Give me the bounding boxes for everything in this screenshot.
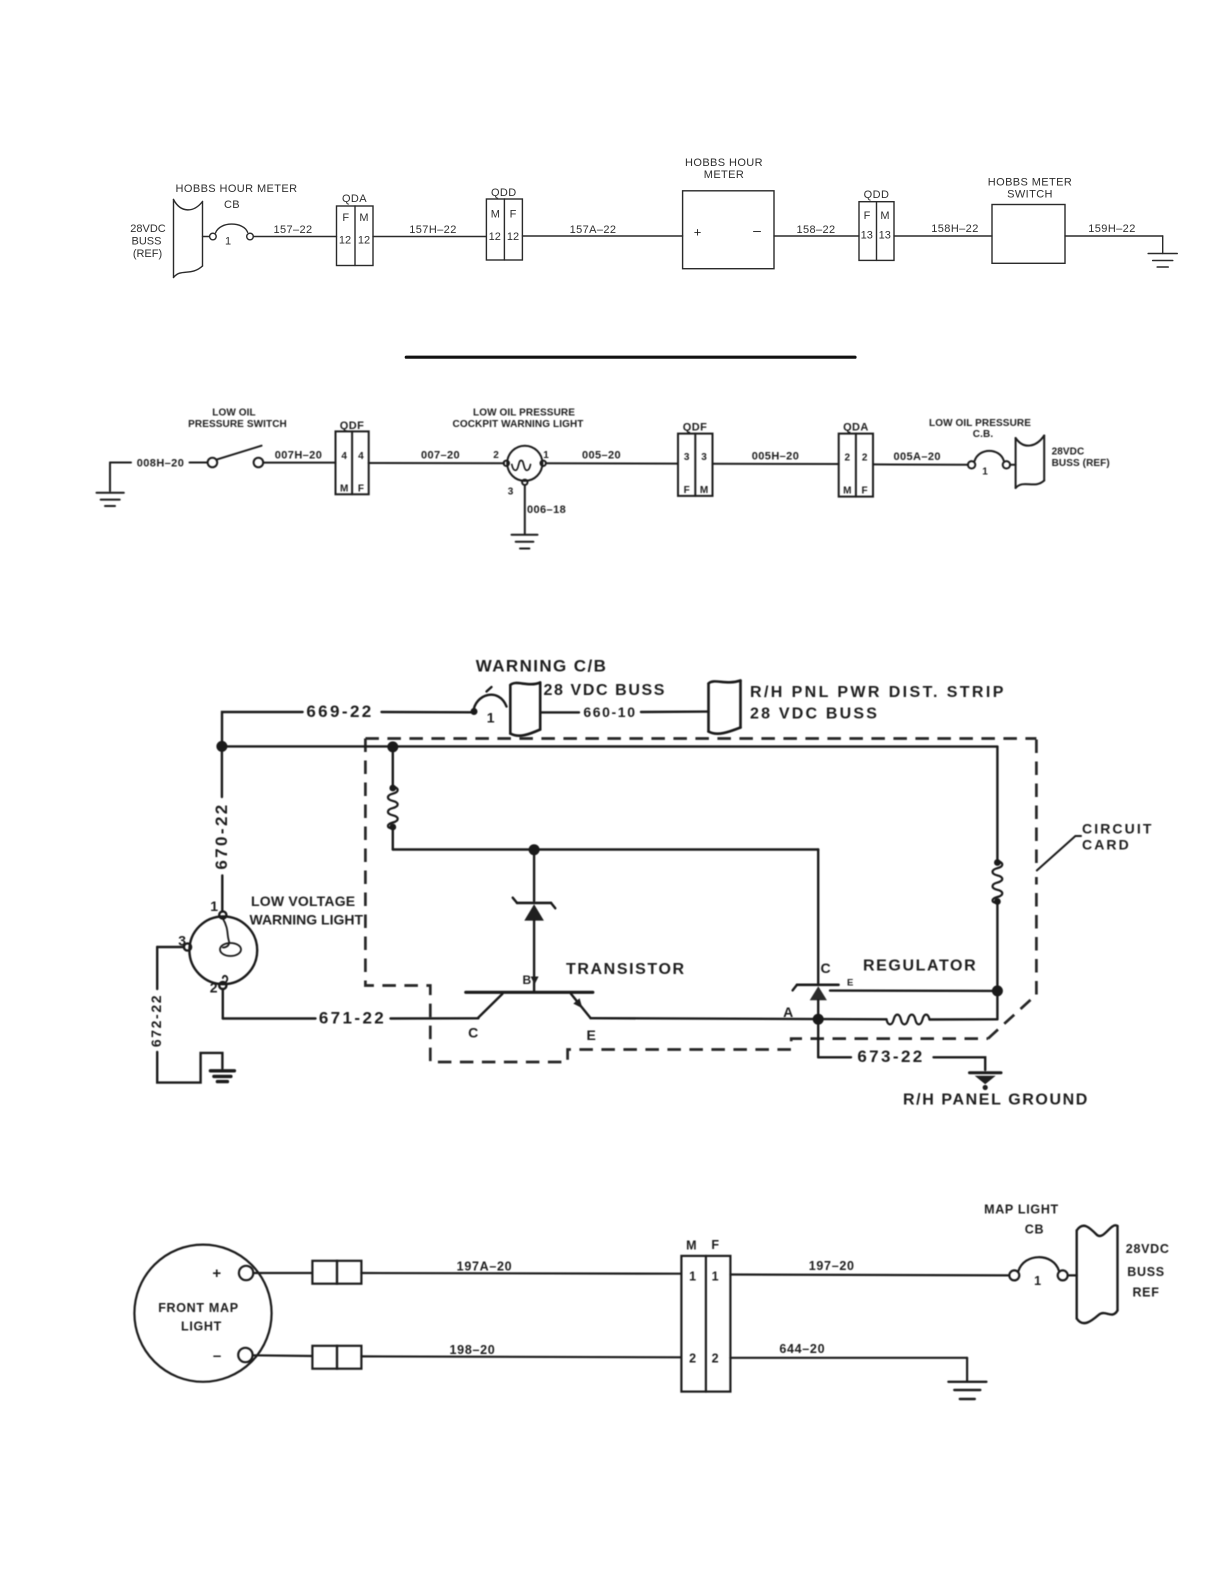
resistor R2 (right, on circuit card)	[993, 747, 1003, 1020]
bus 28VDC BUSS (REF)	[130, 200, 202, 278]
svg-text:BUSS (REF): BUSS (REF)	[1052, 458, 1110, 469]
svg-text:A: A	[783, 1004, 795, 1020]
svg-text:C: C	[468, 1025, 480, 1041]
switch LOW OIL PRESSURE SWITCH	[188, 408, 287, 468]
svg-text:M: M	[491, 209, 500, 221]
svg-text:12: 12	[489, 231, 501, 243]
svg-text:644–20: 644–20	[779, 1342, 825, 1356]
connector QDD pins F/M 13/13	[859, 189, 894, 260]
separator line	[406, 356, 855, 359]
svg-text:QDF: QDF	[340, 420, 364, 432]
zener diode (on transistor base)	[513, 850, 556, 991]
svg-text:WARNING LIGHT: WARNING LIGHT	[250, 912, 364, 928]
svg-text:M: M	[340, 484, 348, 495]
wire emitter to regulator A	[591, 1004, 887, 1024]
wire 671-22	[223, 989, 479, 1028]
SECTION2	[97, 408, 1110, 549]
svg-text:HOBBS HOUR METER: HOBBS HOUR METER	[176, 183, 298, 195]
svg-text:+: +	[212, 1265, 221, 1282]
svg-text:M: M	[843, 485, 851, 496]
svg-text:F: F	[358, 484, 364, 495]
svg-text:1: 1	[982, 467, 988, 478]
svg-text:–: –	[753, 222, 761, 238]
svg-text:2: 2	[493, 450, 499, 461]
connector QDF pins 3/3 F/M	[678, 422, 713, 496]
lamp LOW OIL PRESSURE COCKPIT WARNING LIGHT	[453, 408, 584, 498]
svg-text:670-22: 670-22	[212, 802, 231, 869]
circuit breaker CB 1 (hobbs)	[210, 224, 254, 247]
svg-text:005–20: 005–20	[582, 450, 621, 462]
svg-text:MAP LIGHT: MAP LIGHT	[984, 1203, 1059, 1217]
circuit breaker LOW OIL PRESSURE C.B.	[929, 418, 1031, 478]
svg-text:1: 1	[225, 236, 231, 248]
svg-text:28VDC: 28VDC	[130, 223, 166, 235]
svg-text:CARD: CARD	[1082, 837, 1131, 853]
svg-text:F: F	[711, 1238, 719, 1252]
svg-text:CB: CB	[224, 199, 240, 211]
svg-text:2: 2	[689, 1352, 697, 1366]
svg-text:HOBBS METER: HOBBS METER	[988, 177, 1072, 189]
svg-text:WARNING C/B: WARNING C/B	[476, 657, 608, 676]
svg-text:QDF: QDF	[683, 422, 707, 434]
svg-text:BUSS: BUSS	[132, 236, 162, 248]
splice (197A-20)	[312, 1261, 361, 1284]
wire 660-10	[541, 704, 709, 720]
svg-text:008H–20: 008H–20	[137, 458, 184, 470]
wire 007-20	[369, 449, 504, 463]
wire second rail	[393, 845, 818, 854]
svg-text:671-22: 671-22	[319, 1009, 386, 1028]
svg-text:007H–20: 007H–20	[275, 450, 322, 462]
ground (low oil pressure switch side)	[97, 463, 124, 507]
svg-text:159H–22: 159H–22	[1088, 223, 1135, 235]
svg-text:158H–22: 158H–22	[931, 223, 978, 235]
svg-text:28VDC: 28VDC	[1052, 447, 1085, 458]
wire 005H-20	[713, 451, 839, 465]
svg-text:672-22: 672-22	[148, 994, 164, 1047]
svg-text:REGULATOR: REGULATOR	[863, 958, 977, 975]
wire top bus line (669-22 junction to circuit card)	[218, 742, 998, 751]
svg-text:3: 3	[684, 452, 690, 463]
svg-text:FRONT MAP: FRONT MAP	[158, 1301, 239, 1315]
svg-text:3: 3	[701, 452, 707, 463]
svg-text:QDD: QDD	[491, 187, 517, 199]
svg-text:BUSS: BUSS	[1127, 1265, 1165, 1279]
svg-text:12: 12	[358, 235, 370, 247]
wire 158-22	[774, 224, 859, 236]
wire 005-20	[546, 450, 678, 464]
svg-text:LOW OIL: LOW OIL	[212, 408, 255, 419]
svg-text:CB: CB	[1025, 1223, 1044, 1237]
svg-text:F: F	[684, 485, 690, 496]
svg-text:4: 4	[358, 451, 364, 462]
svg-text:157–22: 157–22	[273, 224, 312, 236]
svg-text:LOW OIL PRESSURE: LOW OIL PRESSURE	[929, 418, 1031, 429]
switch HOBBS METER SWITCH	[988, 177, 1072, 264]
svg-text:F: F	[342, 212, 349, 224]
circuit breaker WARNING C/B 1	[472, 687, 507, 726]
connector QDD pins M/F 12/12	[486, 187, 522, 260]
svg-text:1: 1	[712, 1270, 720, 1284]
svg-text:M: M	[686, 1239, 697, 1253]
SECTION4	[134, 1203, 1169, 1400]
svg-text:M: M	[700, 485, 708, 496]
svg-text:METER: METER	[704, 169, 745, 181]
svg-text:QDA: QDA	[843, 422, 869, 434]
svg-text:COCKPIT WARNING LIGHT: COCKPIT WARNING LIGHT	[453, 419, 584, 430]
meter HOBBS HOUR METER	[683, 157, 774, 269]
wire 007H-20	[263, 450, 335, 463]
svg-text:B: B	[522, 973, 531, 987]
svg-text:M: M	[880, 210, 889, 222]
svg-text:LOW VOLTAGE: LOW VOLTAGE	[251, 893, 355, 909]
wire 673-22	[818, 1019, 985, 1070]
svg-text:C: C	[821, 960, 833, 976]
splice (198-20)	[312, 1346, 361, 1369]
svg-text:006–18: 006–18	[527, 504, 566, 516]
wire bus to CB	[203, 236, 210, 238]
svg-text:3: 3	[508, 487, 514, 498]
regulator REGULATOR (zener)	[793, 850, 998, 1020]
svg-text:197–20: 197–20	[809, 1259, 855, 1273]
svg-text:005A–20: 005A–20	[893, 451, 940, 463]
svg-text:E: E	[587, 1027, 598, 1043]
svg-text:R/H PNL PWR DIST. STRIP: R/H PNL PWR DIST. STRIP	[750, 684, 1006, 701]
wire 157H-22	[373, 224, 486, 237]
svg-text:–: –	[213, 1348, 221, 1365]
wire 006-18 to ground	[512, 485, 567, 549]
svg-text:F: F	[864, 210, 871, 222]
svg-text:TRANSISTOR: TRANSISTOR	[566, 961, 686, 978]
svg-text:005H–20: 005H–20	[752, 451, 799, 463]
wire 669-22	[222, 702, 473, 746]
ground (hobbs meter switch)	[1148, 254, 1177, 268]
wire 672-22 to ground	[148, 947, 222, 1083]
transistor TRANSISTOR	[466, 961, 686, 1043]
wire 158H-22	[894, 223, 992, 236]
wire 005A-20	[873, 451, 968, 465]
connector QDF pins 4/4 M/F	[336, 420, 369, 495]
svg-text:C.B.: C.B.	[973, 429, 994, 440]
resistor R1 (left, on circuit card)	[388, 747, 398, 850]
wire 197A-20	[361, 1260, 681, 1274]
connector M/F pins 1/1 2/2	[681, 1238, 730, 1392]
svg-text:M: M	[359, 212, 368, 224]
svg-text:CIRCUIT: CIRCUIT	[1082, 821, 1153, 837]
svg-text:2: 2	[845, 452, 851, 463]
lamp LOW VOLTAGE WARNING LIGHT	[178, 898, 257, 996]
bus 28VDC BUSS REF (map light)	[1077, 1225, 1170, 1323]
svg-text:SWITCH: SWITCH	[1007, 189, 1053, 201]
wire plus to splice	[253, 1272, 312, 1274]
svg-text:PRESSURE SWITCH: PRESSURE SWITCH	[188, 419, 287, 430]
wire 008H-20	[110, 458, 207, 470]
svg-text:4: 4	[341, 451, 347, 462]
svg-text:(REF): (REF)	[133, 248, 162, 260]
wire 670-22 (vertical to lamp)	[212, 746, 231, 911]
wire 644-20 to ground	[730, 1342, 967, 1381]
callout CIRCUIT CARD	[1037, 821, 1154, 871]
svg-text:1: 1	[210, 898, 219, 914]
svg-text:+: +	[694, 225, 702, 240]
bus R/H PNL PWR DIST. STRIP 28 VDC BUSS	[709, 681, 1006, 734]
svg-text:28 VDC BUSS: 28 VDC BUSS	[750, 706, 879, 723]
transistor base arrow B	[522, 973, 538, 987]
svg-text:669-22: 669-22	[306, 702, 373, 721]
svg-text:157H–22: 157H–22	[409, 224, 456, 236]
lamp FRONT MAP LIGHT	[134, 1245, 271, 1382]
connector QDA pins 2/2 M/F	[839, 422, 873, 497]
svg-text:2: 2	[862, 452, 868, 463]
SECTION1	[130, 157, 1177, 357]
wire 159H-22	[1065, 223, 1163, 254]
svg-text:157A–22: 157A–22	[570, 224, 617, 236]
svg-text:13: 13	[861, 230, 873, 242]
connector QDA pins F/M 12/12	[337, 193, 374, 266]
svg-text:2: 2	[712, 1352, 720, 1366]
ground R/H PANEL GROUND	[903, 1073, 1089, 1109]
label LOW VOLTAGE WARNING LIGHT	[250, 893, 364, 928]
svg-text:12: 12	[339, 235, 351, 247]
svg-text:660-10: 660-10	[583, 704, 636, 720]
svg-text:28VDC: 28VDC	[1126, 1242, 1170, 1256]
wire 157A-22	[522, 224, 682, 236]
label HOBBS HOUR METER CB	[176, 183, 298, 211]
ground (644-20)	[948, 1382, 986, 1399]
svg-text:28 VDC BUSS: 28 VDC BUSS	[544, 682, 667, 699]
svg-text:E: E	[847, 978, 854, 989]
circuit breaker MAP LIGHT CB	[984, 1203, 1077, 1289]
svg-text:197A–20: 197A–20	[457, 1260, 513, 1274]
svg-text:13: 13	[879, 230, 891, 242]
svg-text:REF: REF	[1132, 1286, 1159, 1300]
svg-text:007–20: 007–20	[421, 449, 460, 461]
svg-text:HOBBS HOUR: HOBBS HOUR	[685, 157, 763, 169]
svg-text:1: 1	[689, 1270, 697, 1284]
svg-text:QDD: QDD	[864, 189, 890, 201]
svg-text:LIGHT: LIGHT	[181, 1320, 222, 1334]
circuit card dashed boundary	[365, 739, 1036, 1063]
svg-text:R/H PANEL GROUND: R/H PANEL GROUND	[903, 1092, 1089, 1109]
bus 28VDC BUSS (REF) right	[1016, 436, 1110, 489]
svg-text:1: 1	[487, 710, 496, 726]
svg-text:1: 1	[543, 450, 549, 461]
ground (672-22)	[210, 1071, 234, 1082]
bus 28 VDC BUSS (warning)	[510, 682, 666, 736]
svg-text:12: 12	[507, 231, 519, 243]
svg-text:F: F	[862, 485, 868, 496]
svg-text:158–22: 158–22	[796, 224, 835, 236]
SECTION3	[148, 657, 1154, 1109]
wire 157-22	[253, 224, 336, 237]
svg-text:198–20: 198–20	[450, 1343, 496, 1357]
svg-text:LOW OIL PRESSURE: LOW OIL PRESSURE	[473, 408, 575, 419]
wire minus to splice	[253, 1354, 313, 1357]
svg-text:1: 1	[1034, 1274, 1042, 1288]
svg-text:QDA: QDA	[342, 193, 367, 205]
wire 198-20	[361, 1343, 681, 1357]
resistor R3 (horizontal)	[887, 1015, 998, 1025]
wire 197-20	[730, 1259, 1009, 1275]
svg-text:673-22: 673-22	[857, 1047, 924, 1066]
svg-text:F: F	[510, 209, 517, 221]
